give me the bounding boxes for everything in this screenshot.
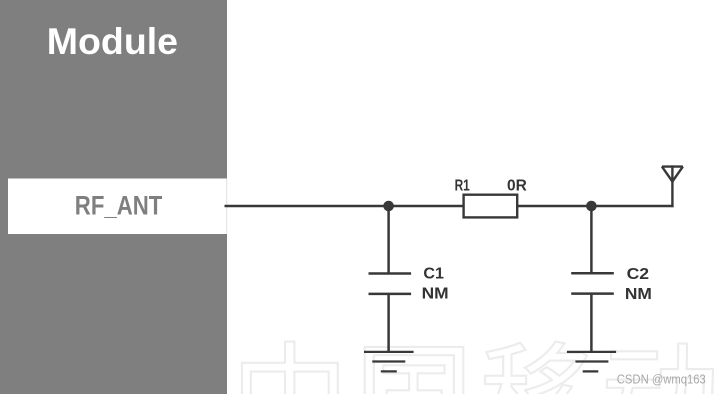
resistor R1 value label 0R [507, 178, 527, 195]
wire: node B to antenna feed corner [592, 205, 674, 208]
port box RF_ANT [8, 179, 227, 235]
watermark glyph 移 [483, 342, 593, 394]
wire: node A down to capacitor C1 [387, 206, 390, 274]
svg-text:NM: NM [625, 286, 652, 303]
capacitor C1 [369, 274, 412, 294]
capacitor C1 value label NM [422, 286, 449, 303]
node B junction dot [586, 201, 597, 212]
svg-text:NM: NM [422, 286, 449, 303]
svg-text:CSDN @wmq163: CSDN @wmq163 [617, 371, 706, 386]
resistor R1 reference label [455, 178, 470, 195]
watermark glyph 中 [242, 342, 338, 394]
module title label [47, 20, 178, 62]
ground symbol (C1) [364, 352, 414, 372]
antenna E1 [662, 165, 683, 207]
svg-text:C2: C2 [627, 266, 650, 283]
pin label RF_ANT [75, 191, 163, 221]
watermark glyph 动 [607, 344, 713, 394]
wire: node B down to capacitor C2 [590, 206, 593, 273]
ground symbol (C2) [567, 352, 616, 372]
wire: RF_ANT to resistor R1 left pin [225, 205, 465, 208]
svg-text:RF_ANT: RF_ANT [75, 191, 163, 221]
module body (gray block) [0, 0, 227, 394]
watermark glyph 国 [365, 347, 464, 394]
resistor R1 body [464, 195, 518, 218]
svg-text:0R: 0R [507, 178, 527, 195]
wire: capacitor C1 to ground [387, 294, 390, 352]
svg-text:C1: C1 [423, 266, 444, 283]
wire: resistor R1 right pin to node B [517, 205, 592, 208]
site watermark CSDN @wmq163 [617, 371, 706, 386]
node A junction dot [383, 201, 394, 212]
wire: capacitor C2 to ground [590, 294, 593, 352]
capacitor C1 reference label [423, 266, 444, 283]
capacitor C2 [571, 273, 614, 293]
capacitor C2 reference label [627, 266, 650, 283]
svg-text:Module: Module [47, 20, 178, 62]
svg-text:R1: R1 [455, 178, 470, 195]
capacitor C2 value label NM [625, 286, 652, 303]
